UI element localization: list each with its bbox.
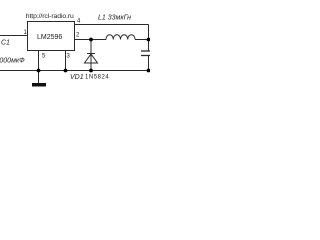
svg-text:3: 3 [67,54,71,60]
svg-text:5: 5 [42,54,46,60]
svg-text:2: 2 [76,33,80,39]
svg-text:LM2596: LM2596 [37,34,62,41]
svg-text:http://rcl-radio.ru: http://rcl-radio.ru [26,13,74,20]
svg-text:VD1: VD1 [70,74,84,81]
svg-text:1000мкФ: 1000мкФ [0,57,25,64]
svg-text:1N5824: 1N5824 [85,74,109,80]
svg-text:4: 4 [77,19,81,25]
svg-text:C1: C1 [1,39,10,46]
svg-text:L1 33мкГн: L1 33мкГн [98,15,131,22]
